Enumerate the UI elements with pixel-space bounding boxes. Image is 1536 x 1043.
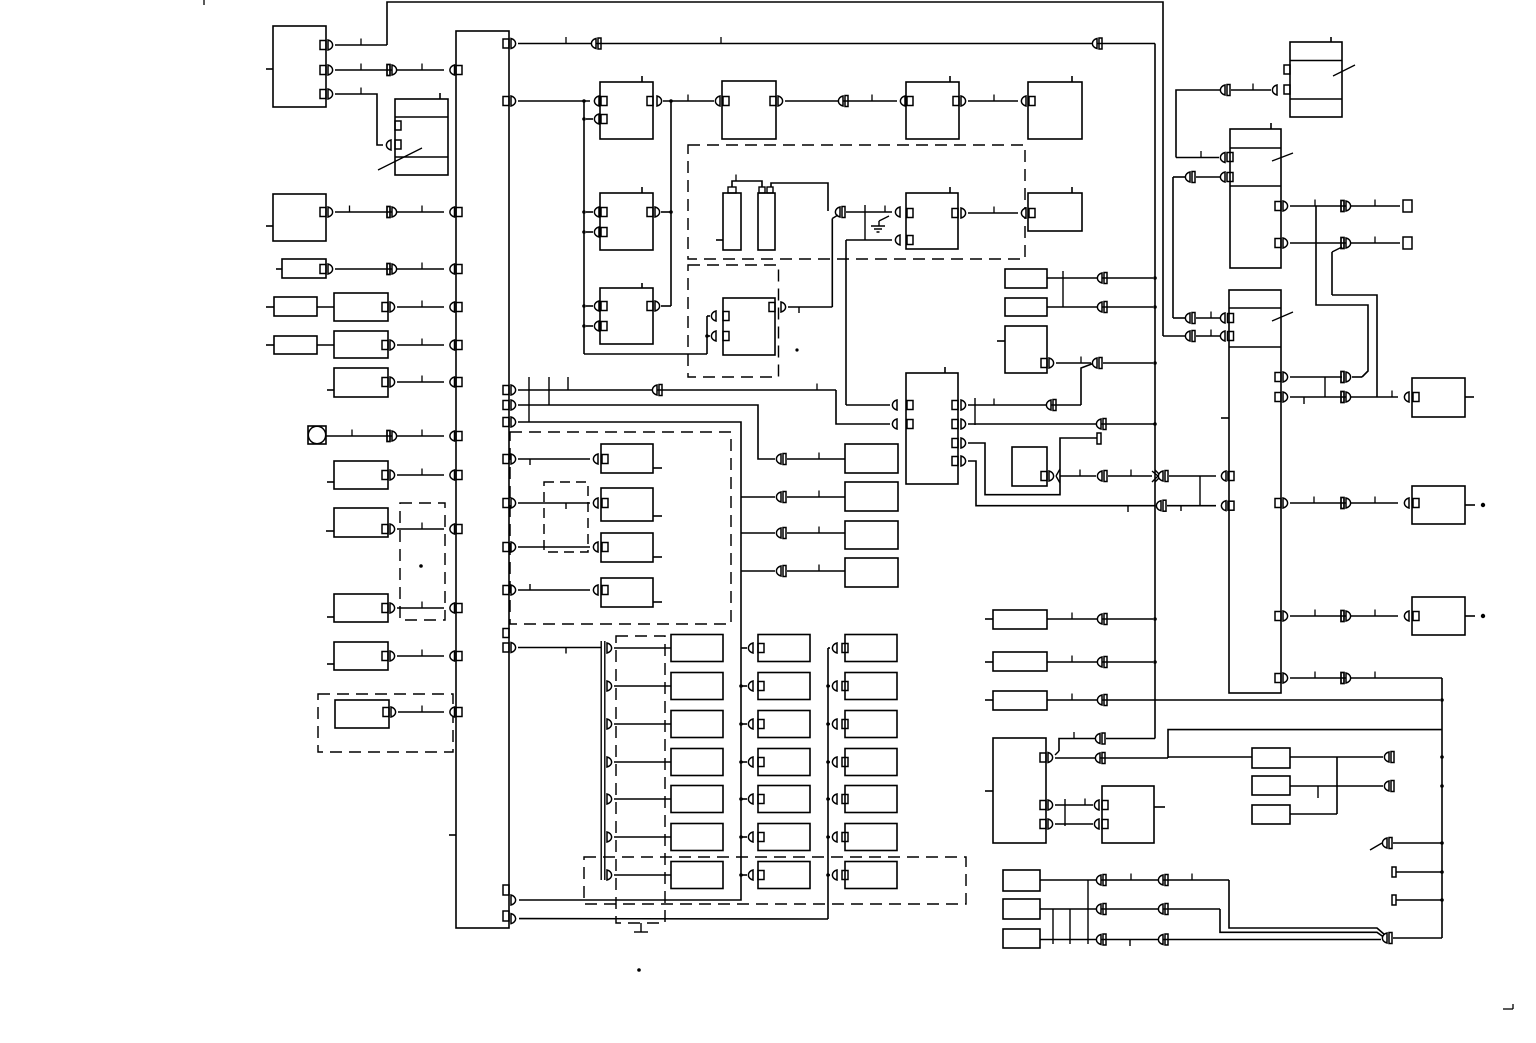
injector 3b (758, 711, 810, 738)
sensor B2 row (266, 331, 395, 358)
aux module A2 feed wire (776, 491, 845, 503)
merge pair to V2 (1382, 933, 1442, 944)
injector 4c (845, 749, 897, 776)
M3 output wire (655, 301, 671, 311)
injector 2c (845, 673, 897, 700)
U1 out2 wire (961, 419, 1155, 430)
K2 out wire row1 (1275, 200, 1412, 213)
feed vertical for column b (519, 643, 764, 900)
dashed option box B8 (318, 694, 453, 752)
relay K1 (1284, 37, 1355, 117)
D1 top output crimp (1048, 732, 1155, 763)
G3 output wire (1290, 757, 1337, 814)
T2 right out y616 to module RB3 (1275, 610, 1419, 622)
injector 5a (671, 786, 723, 813)
X1 pin wire to IB2 (503, 498, 598, 509)
pin A1-1 wire to top bus line (328, 2, 1163, 336)
module IB4 (601, 578, 662, 607)
module G1 (1252, 748, 1290, 768)
X1 pin T2 wire to relay boxes (503, 96, 599, 106)
wire B1 to harness (397, 301, 462, 313)
wire to coil B5 (846, 205, 900, 240)
S3 output wire (1056, 357, 1153, 369)
harness double line (601, 641, 605, 880)
U1 out1 wire (961, 364, 1093, 426)
T2 right out y678 (1275, 672, 1442, 684)
sender unit G (circle symbol) (308, 426, 326, 444)
link wires down to T2 (1316, 206, 1377, 397)
T2 right out y377 (1275, 372, 1362, 398)
injector 4b (758, 749, 810, 776)
module D1 (alternator) (985, 738, 1046, 843)
A3 wire to harness (328, 263, 462, 275)
injector 6b (758, 824, 810, 851)
terminal TB2 (1392, 895, 1442, 905)
injector 5c (845, 786, 897, 813)
X1 pin wire to IB3 (503, 542, 598, 552)
G1 output wire (1290, 752, 1394, 763)
sensor B1 row (266, 293, 395, 321)
aux module A3 feed wire (776, 527, 845, 539)
module S4 (1012, 447, 1054, 486)
wire B8 to harness (398, 706, 462, 718)
dashed group box A (capacitors+coil) (688, 145, 1025, 259)
A2 wire to harness (328, 206, 462, 218)
ECU U1 (906, 367, 958, 484)
injector 7b (758, 862, 810, 889)
resistor R2 wire (1047, 656, 1153, 668)
injector 5b (758, 786, 810, 813)
aux module A4 (845, 558, 898, 587)
module IB1 (601, 444, 662, 473)
wire C2 to C3 (961, 95, 1026, 107)
module F2 (1003, 899, 1040, 919)
harness connector X1 (tall) (449, 31, 509, 928)
sensor B4 row (327, 461, 395, 489)
module F3 (1003, 929, 1040, 948)
X1 pin wire to IB4 (503, 584, 598, 595)
fuse box F1 (378, 93, 448, 175)
switch SW1 (1370, 838, 1442, 851)
connector module A3 (276, 259, 326, 278)
sensor B8 (335, 700, 396, 728)
aux module A3 (845, 521, 898, 549)
injector 3c (845, 711, 897, 738)
aux module A2 (845, 482, 898, 511)
pin A1-3 wire to fuse box F1 (328, 88, 391, 151)
wire to ECU U1 pin1 (846, 400, 897, 410)
M2 output wire (655, 207, 673, 217)
wire to K2 pin2 (1173, 172, 1225, 319)
control unit M2 (582, 187, 653, 250)
injector row 4 col1 wire (607, 757, 671, 767)
bus vertical V2 right (1440, 678, 1444, 938)
wire to G1 (1168, 756, 1252, 758)
dashed option box around sensor row (400, 503, 445, 620)
module G3 (1252, 805, 1290, 824)
X1 pin wire W2 (503, 400, 775, 459)
M1 output wire (657, 95, 720, 307)
sensor B5 row (326, 508, 395, 537)
injector 7c (845, 862, 897, 889)
module G2 (1252, 776, 1290, 795)
resistor R3 (985, 691, 1047, 710)
injector 1a (671, 635, 723, 662)
F2 output wire (1040, 904, 1385, 945)
wire B3 to harness (397, 376, 462, 388)
bus vertical V1 (1153, 44, 1161, 739)
S4 output crimp (1056, 469, 1234, 506)
D1 wires to E1 (1048, 799, 1108, 830)
relay module S2 (1005, 298, 1153, 316)
wire B5 to C4 (961, 207, 1026, 219)
module C2 (906, 76, 959, 139)
T2 right out y397 to module RB1 (1275, 391, 1419, 405)
module C0 (722, 81, 776, 139)
control unit M1 (600, 76, 653, 139)
wire B5 to harness (397, 523, 462, 535)
resistor R2 (985, 652, 1047, 671)
wire G to harness (326, 430, 462, 442)
wire B6 to harness (397, 602, 462, 614)
dashed group box B (distributor) (688, 265, 779, 377)
T mark under dashed column (634, 923, 648, 932)
U1 out3 wire to test point (961, 433, 1101, 495)
sensor B6 row (327, 594, 395, 622)
distributor output wire (781, 302, 832, 313)
X1 pin wire W1 (503, 377, 836, 422)
wire B4 to harness (397, 469, 462, 481)
sensor B3 row (327, 368, 395, 397)
F3 output wire (1040, 934, 1381, 946)
injector row 6 col1 wire (607, 832, 671, 842)
injector row 1 col1 wire (607, 643, 671, 653)
injector 4a (671, 749, 723, 776)
wire to K1 (1176, 84, 1277, 158)
module IB3 (601, 533, 662, 562)
ignition coil B5 (906, 187, 958, 249)
ground (871, 216, 889, 232)
module RB1 (1412, 378, 1474, 417)
small dashed box S1 (544, 482, 588, 552)
X1 pin for column b feed (503, 885, 516, 905)
feed vertical for column c (519, 643, 848, 919)
F1 output wire (1040, 874, 1385, 945)
module RB3 (1412, 597, 1485, 635)
U1 out4 wire to connector T2 (961, 456, 1234, 512)
X1 pin wire W3 (503, 417, 741, 876)
T2 right out y503 to module RB2 (1275, 497, 1419, 509)
injector row 3 col1 wire (607, 719, 671, 729)
node dot in dashed box (419, 564, 423, 568)
capacitor top wire (732, 175, 828, 212)
injector 3a (671, 711, 723, 738)
dashed group box C (510, 432, 731, 624)
injector 1c (845, 635, 897, 662)
tall connector T2 (1221, 290, 1293, 693)
X1 pin for column c feed (503, 911, 516, 924)
injector 2b (758, 673, 810, 700)
D1 top output second lead (1055, 730, 1442, 764)
connector module A2 (266, 194, 326, 241)
page mark top-left (203, 0, 205, 5)
distributor D (723, 298, 775, 355)
pin A1-2 wire to harness X1 (328, 64, 462, 76)
wire B7 to harness (397, 650, 462, 662)
page mark bottom-right (1503, 1004, 1513, 1009)
capacitor C2 (758, 187, 775, 250)
injector 6a (671, 824, 723, 851)
aux module A1 (845, 444, 898, 473)
T2 pin wire y336 (1185, 330, 1233, 342)
X1 pin wire to ignition harness (503, 643, 601, 654)
connector module A1 (top-left) (266, 26, 326, 107)
relay module S1 (1005, 269, 1153, 307)
T2 pin wire y318 (1163, 312, 1234, 337)
module C3 (1028, 76, 1082, 139)
control unit M3 (582, 283, 653, 344)
aux module A1 feed wire (776, 453, 845, 465)
injector row 2 col1 wire (607, 681, 671, 691)
aux module A4 feed wire (776, 565, 845, 577)
wire to K2 pin1 (1176, 151, 1225, 163)
node dot bottom center (637, 968, 641, 972)
capacitor C1 (716, 187, 741, 250)
injector 1b (758, 635, 810, 662)
X1 lone pin square (503, 629, 509, 638)
injector row 5 col1 wire (607, 794, 671, 804)
wire B2 to harness (397, 339, 462, 351)
resistor R1 (985, 610, 1047, 629)
wire C0 to C2 (778, 95, 905, 107)
sensor B7 row (327, 642, 395, 670)
M1 left pin feeds (582, 101, 599, 354)
X1 pin wire to IB1 (503, 454, 598, 465)
module RB2 (1412, 486, 1485, 524)
resistor R3 wire (1047, 694, 1440, 706)
relay K2 (1227, 123, 1293, 268)
module E1 (regulator) (1102, 786, 1165, 843)
wire M-chain to relay K3 (584, 311, 716, 354)
injector 6c (845, 824, 897, 851)
module IB2 (601, 488, 662, 521)
X1 pin T1 top wire (503, 37, 1155, 49)
terminal TB1 (1392, 867, 1442, 877)
G2 output wire (1290, 781, 1394, 799)
wide dashed box (bottom row group) (584, 857, 966, 904)
module S3 (997, 326, 1054, 373)
resistor R1 wire (1047, 613, 1153, 625)
module F1 (1003, 870, 1040, 891)
node dot right of group B (795, 348, 798, 351)
wire W1 to ECU U1 pin2 (836, 390, 897, 429)
wire lower to coil B5 (846, 235, 900, 405)
branch wires from W3 vertical (741, 497, 775, 571)
K2 out wire row2 (1275, 237, 1412, 296)
injector row 7 col1 wire (607, 870, 671, 880)
module C4 (1028, 187, 1082, 231)
dashed column box (injector group) (616, 636, 665, 923)
splice pair P-A (832, 207, 845, 308)
injector 7a (671, 862, 723, 889)
injector 2a (671, 673, 723, 700)
